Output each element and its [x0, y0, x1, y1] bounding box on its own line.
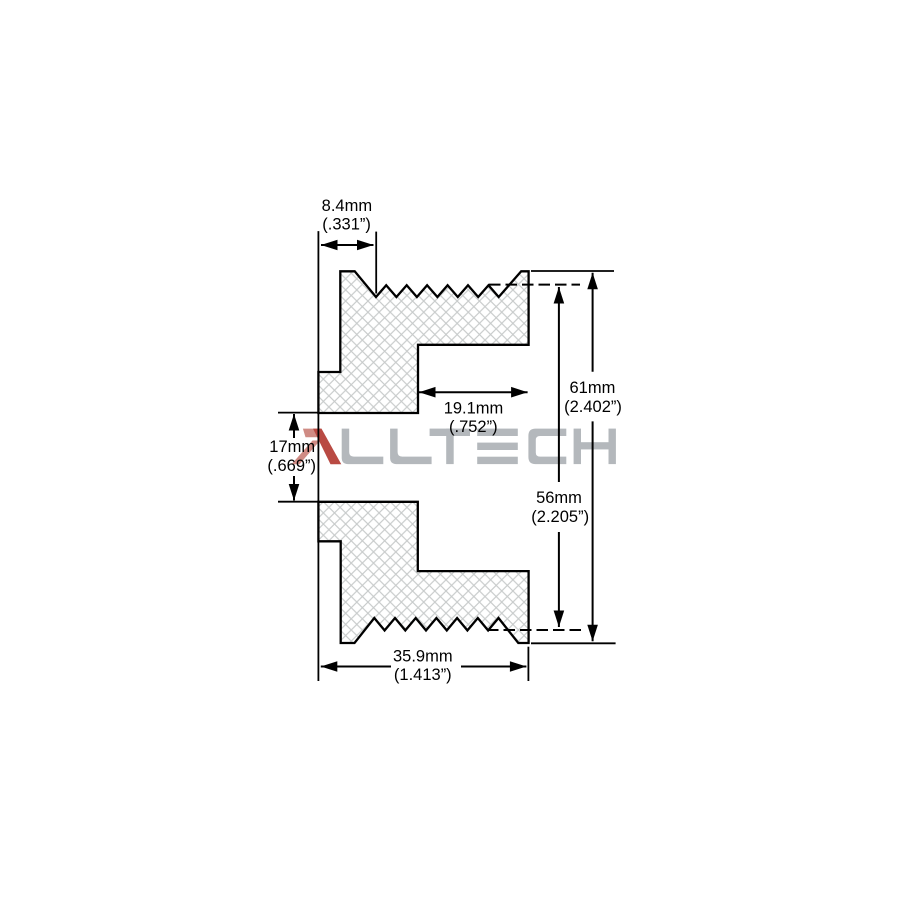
logo letter T: [430, 429, 470, 436]
svg-text:19.1mm: 19.1mm: [444, 399, 504, 417]
19.1mm dimension line: [419, 391, 528, 393]
logo letter L: [390, 429, 432, 465]
56mm dimension line: [558, 287, 560, 482]
left long extension line: [317, 231, 319, 681]
top-right extension line: [531, 270, 614, 272]
logo letter L: [342, 429, 384, 465]
svg-text:8.4mm: 8.4mm: [322, 197, 372, 215]
svg-text:(.331”): (.331”): [322, 216, 371, 234]
8.4mm right extension line: [375, 232, 377, 294]
svg-text:17mm: 17mm: [269, 438, 315, 456]
svg-text:(2.402”): (2.402”): [564, 398, 622, 416]
logo letter A (red): [303, 429, 322, 438]
svg-text:56mm: 56mm: [536, 489, 582, 507]
35.9mm dimension line: [321, 666, 391, 668]
17mm top extension line: [278, 412, 318, 414]
pulley cross-section lower half (hatched): [318, 502, 528, 643]
svg-text:(.669”): (.669”): [267, 457, 316, 475]
svg-text:35.9mm: 35.9mm: [393, 648, 453, 666]
35.9mm right extension line: [527, 647, 529, 681]
ALLTECH watermark logo: [292, 429, 616, 465]
logo letter C: [528, 429, 566, 465]
logo letter H: [574, 429, 581, 465]
61mm dimension line: [592, 273, 594, 372]
bottom dashed reference line: [487, 629, 581, 631]
8.4mm dimension line: [321, 244, 374, 246]
svg-text:61mm: 61mm: [569, 379, 615, 397]
pulley cross-section upper half (hatched): [318, 271, 528, 413]
bottom-right extension line: [531, 642, 616, 644]
17mm bottom extension line: [278, 501, 318, 503]
svg-text:(1.413”): (1.413”): [394, 666, 452, 684]
17mm dimension arrows: [293, 414, 295, 438]
svg-text:(2.205”): (2.205”): [531, 508, 589, 526]
logo letter E: [477, 429, 518, 436]
svg-text:(.752”): (.752”): [449, 418, 498, 436]
top dashed reference line: [489, 284, 580, 286]
